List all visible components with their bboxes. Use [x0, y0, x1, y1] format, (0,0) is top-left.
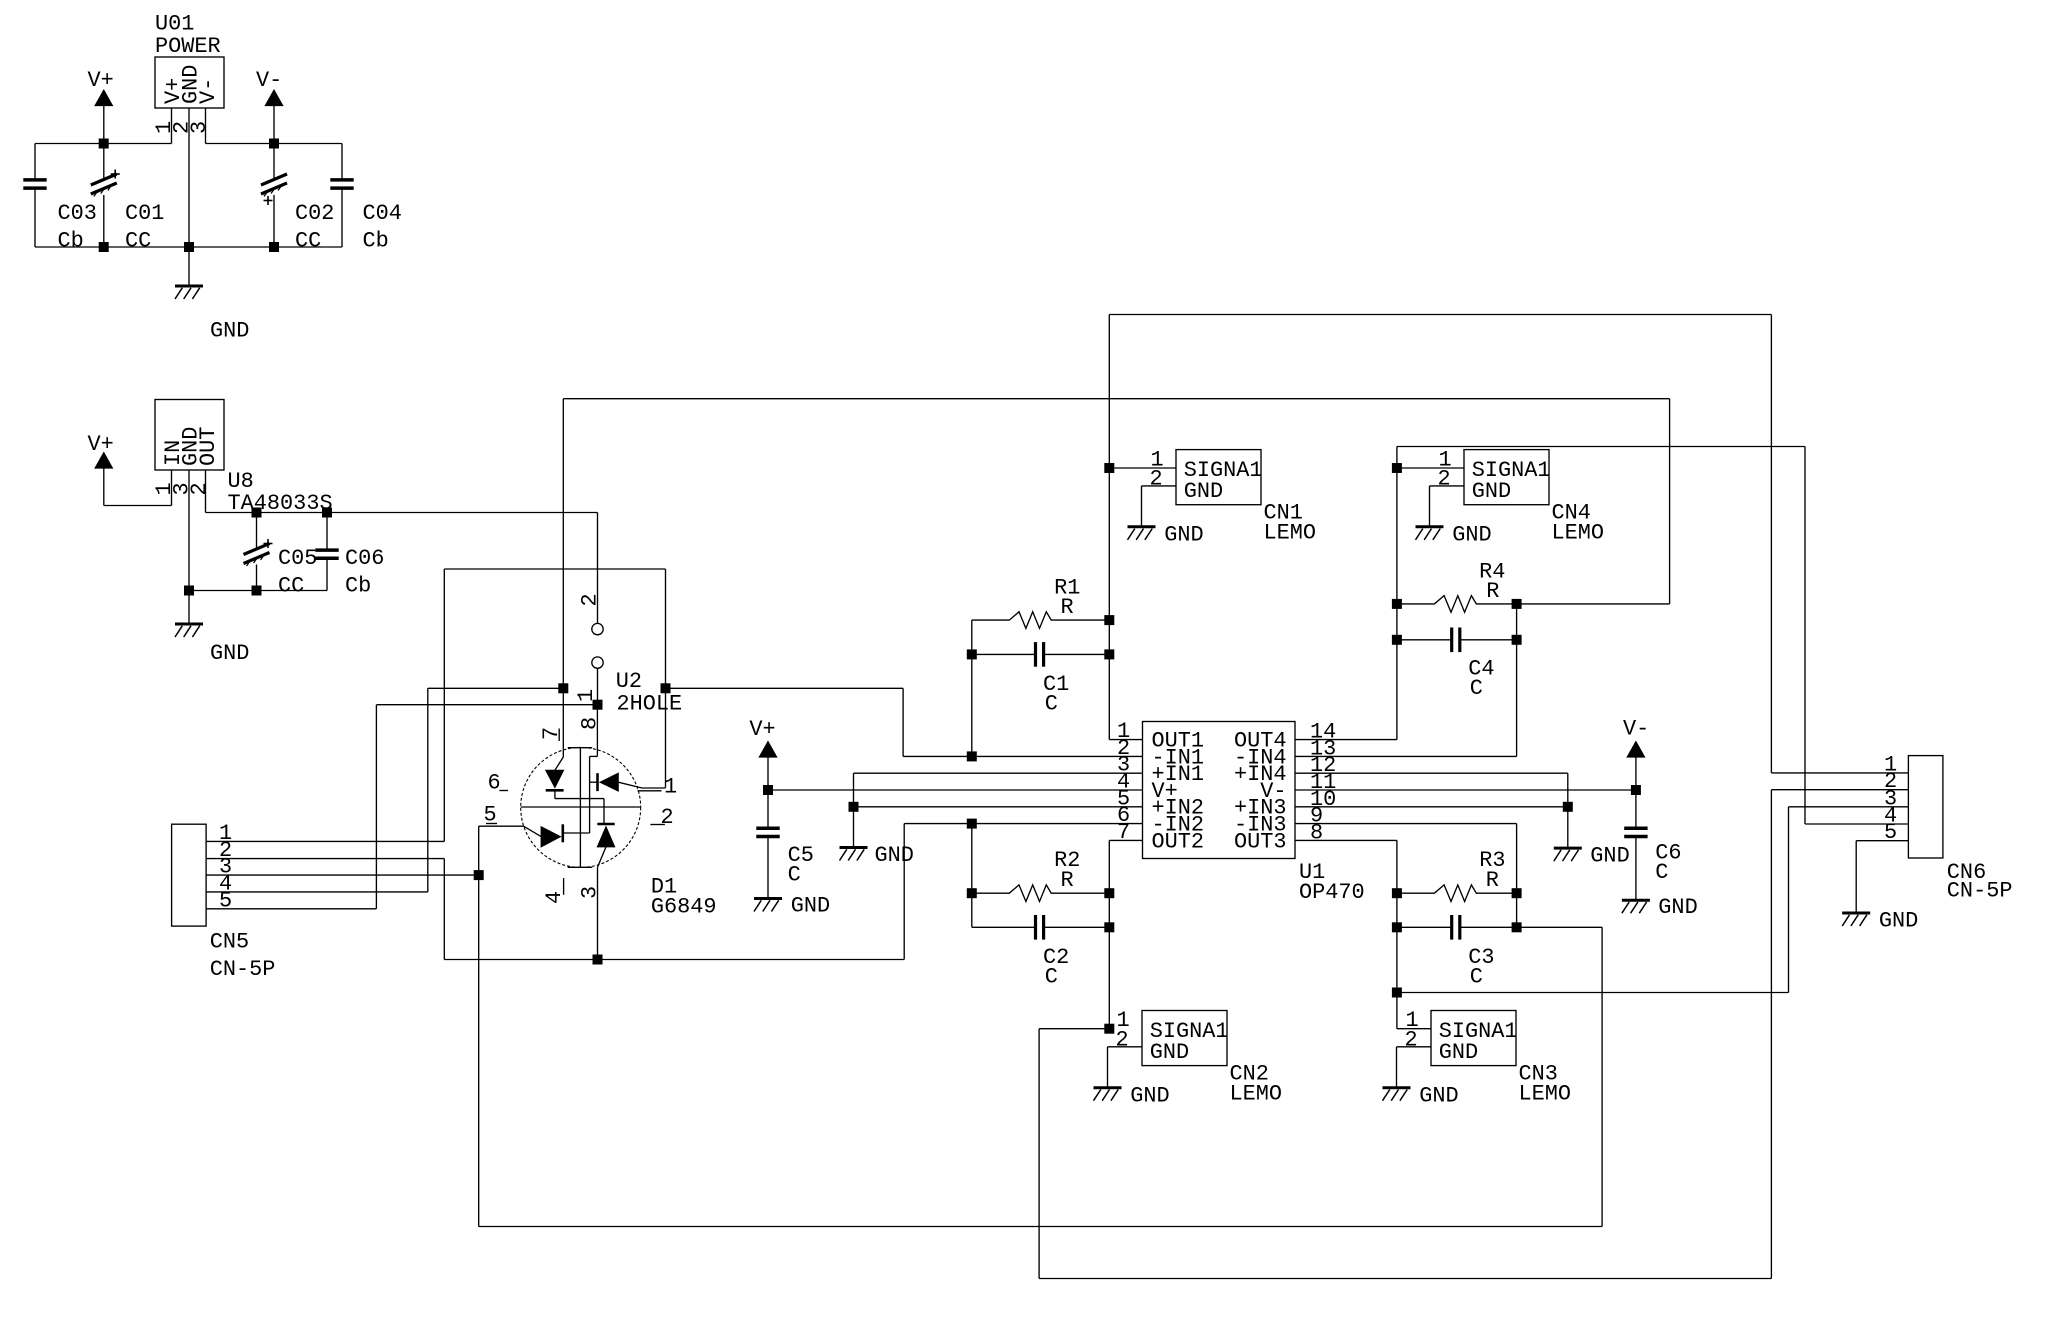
node CN5 pin3 junction — [474, 871, 483, 880]
svg-text:GND: GND — [1590, 844, 1629, 869]
CN3 pin number 1 — [1406, 1008, 1419, 1033]
U1 pin number 1 — [1117, 719, 1130, 744]
capacitor C03 — [23, 144, 46, 248]
U1 pin number 4 — [1117, 770, 1130, 795]
U01 pin name V+ (rotated) — [161, 78, 186, 104]
wire OUT3 drop — [1295, 840, 1397, 1028]
node D1 pin7 junction — [559, 684, 568, 693]
wire OUT2 drop — [1109, 840, 1142, 1028]
wire bottom rail — [35, 246, 342, 248]
ground below CN1 — [1128, 527, 1156, 540]
CN5 reference label — [210, 930, 276, 983]
CN1 pin name SIGNA1 — [1184, 458, 1263, 483]
node C05 gnd junction — [252, 586, 261, 595]
D1 pin3 wire — [598, 847, 607, 960]
U2 hole 1 circle — [592, 657, 603, 668]
svg-text:GND: GND — [1452, 523, 1491, 548]
svg-text:V-: V- — [1623, 717, 1649, 742]
net label GND (U01) — [210, 319, 249, 344]
power flag V+ arrow — [95, 90, 113, 144]
capacitor C5 — [756, 790, 779, 899]
U2 hole 2 circle — [592, 623, 603, 634]
resistor R2 — [972, 885, 1110, 902]
node R3 left junction — [1392, 889, 1401, 898]
ground below U01 — [175, 247, 203, 299]
connector CN2 body — [1142, 1011, 1227, 1066]
U8 pin number 2 — [187, 482, 212, 495]
ground below CN2 — [1094, 1088, 1122, 1101]
svg-text:Cb: Cb — [363, 228, 389, 253]
U1 left pin 1 name — [1152, 729, 1205, 754]
CN5 pin number 1 — [219, 821, 232, 846]
svg-text:C: C — [1470, 965, 1483, 990]
ground below CN3 — [1383, 1088, 1411, 1101]
net label GND (C5) — [791, 894, 830, 919]
CN6 pin number 5 — [1884, 820, 1897, 845]
U1 pin number 11 — [1310, 770, 1336, 795]
power flag V- label — [256, 68, 282, 93]
capacitor C06 — [315, 513, 338, 591]
wire OUT3 to CN6 — [1397, 807, 1909, 993]
node V- junction — [1631, 786, 1640, 795]
node R4 right junction — [1512, 599, 1521, 608]
D1 pin label 7 — [539, 727, 564, 741]
svg-text:CC: CC — [125, 228, 151, 253]
svg-text:GND: GND — [1472, 479, 1511, 504]
svg-text:R: R — [1061, 595, 1074, 620]
CN1 pin name GND — [1184, 479, 1223, 504]
CN4 pin name GND — [1472, 479, 1511, 504]
wire V+ to U1 pin4 — [768, 789, 1143, 791]
U1 right pin 9 name — [1234, 813, 1287, 838]
wire CN5 pin3 down to bottom run — [479, 875, 1602, 1226]
U2 hole 1 stub — [597, 668, 599, 704]
D1 pin8 wire — [590, 705, 598, 833]
CN2 reference label — [1230, 1062, 1283, 1107]
CN4 pin name SIGNA1 — [1472, 458, 1551, 483]
connector CN1 body — [1176, 450, 1261, 505]
U01 pin 3 stub — [205, 108, 207, 144]
D1 diode lower-right — [597, 824, 614, 847]
U1 pin number 7 — [1117, 820, 1130, 845]
capacitor C1 — [972, 642, 1110, 667]
node V- rail junction — [270, 139, 279, 148]
wire +IN1 to gnd — [854, 773, 1143, 847]
resistor R1 label — [1054, 576, 1080, 621]
CN1 reference label — [1264, 501, 1317, 546]
CN4 pin number 2 — [1438, 466, 1451, 491]
U1 right pin 14 name — [1234, 729, 1287, 754]
node R3 right junction — [1512, 889, 1521, 898]
svg-text:GND: GND — [1439, 1040, 1478, 1065]
CN2 pin name GND — [1150, 1040, 1189, 1065]
U1 left pin 3 name — [1152, 762, 1205, 787]
U1 right pin 8 name — [1234, 829, 1287, 854]
wire CN1 pin1 lead — [1109, 467, 1176, 469]
CN4 pin number 1 — [1439, 447, 1452, 472]
svg-text:C01: C01 — [125, 201, 164, 226]
capacitor C02 (polarized) — [261, 144, 287, 248]
svg-text:GND: GND — [1130, 1083, 1169, 1108]
svg-text:C04: C04 — [363, 201, 402, 226]
wire -IN1 to U1 pin2 — [666, 688, 1143, 756]
wire CN6 pin5 to ground — [1856, 841, 1908, 913]
U2 reference label — [616, 669, 682, 717]
net label GND (CN1) — [1164, 523, 1203, 548]
svg-text:V-: V- — [256, 68, 282, 93]
wire -IN1 drop — [665, 569, 667, 788]
svg-text:3: 3 — [577, 886, 602, 899]
U01 pin number 3 — [187, 121, 212, 134]
U1 right pin 13 name — [1234, 745, 1287, 770]
svg-text:POWER: POWER — [155, 34, 221, 59]
capacitor C6 — [1624, 790, 1647, 900]
ground below C5 — [754, 899, 782, 912]
net label GND (CN4) — [1452, 523, 1491, 548]
U1 pin number 8 — [1310, 820, 1323, 845]
wire R1 C1 left vertical — [971, 620, 973, 756]
svg-text:OUT3: OUT3 — [1234, 829, 1287, 854]
node C3 left junction — [1392, 923, 1401, 932]
capacitor C05 (polarized) — [244, 513, 273, 591]
power flag V- label (C6) — [1623, 717, 1649, 742]
ground +IN1 +IN2 — [840, 848, 868, 861]
svg-text:CN-5P: CN-5P — [1947, 878, 2013, 903]
svg-text:2: 2 — [1150, 466, 1163, 491]
svg-text:R: R — [1486, 579, 1499, 604]
CN1 pin number 1 — [1151, 447, 1164, 472]
wire -IN3 pin9 — [1295, 824, 1517, 928]
node R1 C1 left junction on -IN1 — [967, 752, 976, 761]
ground below CN6 pin5 — [1842, 913, 1870, 926]
CN3 reference label — [1519, 1062, 1572, 1107]
node CN4 pin1 junction — [1392, 464, 1401, 473]
net label GND (CN6) — [1879, 909, 1918, 934]
resistor R1 — [972, 612, 1110, 629]
net label GND (CN2) — [1130, 1083, 1169, 1108]
svg-text:GND: GND — [210, 641, 249, 666]
svg-text:LEMO: LEMO — [1519, 1082, 1572, 1107]
CN2 pin number 1 — [1117, 1008, 1130, 1033]
U1 pin number 12 — [1310, 753, 1336, 778]
svg-text:7: 7 — [539, 727, 564, 740]
svg-text:C: C — [1655, 860, 1668, 885]
svg-text:U2: U2 — [616, 669, 642, 694]
node C4 right junction — [1512, 635, 1521, 644]
U1 pin number 6 — [1117, 803, 1130, 828]
wire V- pin11 — [1295, 789, 1636, 791]
U2 pin number 2 (rotated) — [578, 593, 603, 606]
D1 pin1 wire — [618, 782, 665, 788]
svg-text:LEMO: LEMO — [1264, 521, 1317, 546]
U1 left pin 5 name — [1152, 796, 1205, 821]
capacitor C5 label — [788, 843, 814, 888]
node D1 pin3 rail junction — [593, 955, 602, 964]
node bottom rail junction C02 — [270, 243, 279, 252]
svg-text:GND: GND — [210, 319, 249, 344]
svg-text:C02: C02 — [295, 201, 334, 226]
resistor R3 — [1397, 885, 1517, 902]
U1 pin number 2 — [1117, 736, 1130, 761]
node U2 hole1 junction — [593, 700, 602, 709]
svg-text:2: 2 — [187, 482, 212, 495]
wire top rail right — [206, 143, 343, 145]
resistor R2 label — [1054, 848, 1080, 893]
svg-text:CC: CC — [278, 574, 304, 599]
U1 right pin 12 name — [1234, 762, 1287, 787]
svg-text:GND: GND — [1150, 1040, 1189, 1065]
capacitor C2 — [972, 915, 1110, 940]
wire V+ to U8 pin 1 — [104, 470, 172, 506]
svg-text:OUT: OUT — [196, 427, 221, 466]
svg-text:2: 2 — [1405, 1027, 1418, 1052]
U8 reference label — [228, 469, 333, 516]
svg-text:OUT2: OUT2 — [1152, 829, 1205, 854]
connector CN5 body — [172, 824, 207, 926]
U8 pin number 3 — [170, 482, 195, 495]
capacitor C2 label — [1043, 945, 1069, 990]
D1 horizontal chord — [521, 806, 641, 808]
node C1 left junction — [967, 650, 976, 659]
U1 pin number 9 — [1310, 804, 1323, 829]
svg-text:C05: C05 — [278, 546, 317, 571]
svg-text:C: C — [1045, 965, 1058, 990]
CN5 pin number 3 — [219, 855, 232, 880]
net label GND (CN3) — [1419, 1083, 1458, 1108]
U1 right pin 11 name — [1260, 779, 1286, 804]
CN5 pin number 2 — [219, 838, 232, 863]
wire gnd rail C05 C06 — [189, 590, 327, 592]
CN3 pin name SIGNA1 — [1439, 1019, 1518, 1044]
U01 pin name GND (rotated) — [179, 65, 204, 104]
node R1 right junction — [1105, 616, 1114, 625]
power flag V- arrow — [265, 90, 283, 144]
ground +IN3 +IN4 — [1554, 848, 1582, 861]
U01 pin number 1 — [152, 121, 177, 134]
node C4 left junction — [1392, 635, 1401, 644]
wire +IN3 pin10 — [1295, 806, 1568, 808]
power flag V- arrow (C6) — [1627, 742, 1645, 791]
op-amp U1 body — [1143, 722, 1296, 859]
CN6 pin number 1 — [1884, 752, 1897, 777]
D1 diode upper-left — [546, 770, 604, 824]
D1 pin label 8 — [577, 717, 602, 730]
power flag V+ arrow (C5) — [759, 742, 777, 791]
node C06 junction — [323, 508, 332, 517]
connector CN4 body — [1464, 450, 1549, 505]
CN3 pin name GND — [1439, 1040, 1478, 1065]
D1 pin label 2 — [650, 805, 673, 830]
D1 pin label 6 — [488, 771, 509, 796]
node R2 left junction — [967, 889, 976, 898]
svg-text:5: 5 — [1884, 820, 1897, 845]
U8 pin name OUT (rotated) — [196, 427, 221, 466]
capacitor C06 label — [345, 546, 384, 599]
ground below C6 — [1622, 900, 1650, 913]
svg-text:C: C — [1470, 676, 1483, 701]
wire top rail left — [35, 143, 172, 145]
wire CN5 pin5 to U2 hole1 — [206, 705, 597, 909]
CN6 pin number 3 — [1884, 786, 1897, 811]
svg-text:2HOLE: 2HOLE — [617, 692, 683, 717]
node OUT3 junction — [1392, 988, 1401, 997]
CN5 pin number 4 — [219, 871, 232, 896]
svg-text:GND: GND — [1164, 523, 1203, 548]
svg-text:U01: U01 — [155, 12, 194, 37]
D1 diode upper-right — [590, 773, 619, 791]
D1 pin label 1 — [638, 775, 678, 800]
D1 center chord vertical — [579, 748, 581, 868]
net label GND (U8) — [210, 641, 249, 666]
svg-text:2: 2 — [1438, 466, 1451, 491]
capacitor C1 label — [1043, 672, 1069, 717]
D1 pin label 4 — [542, 878, 567, 904]
wire OUT2 bottom loop — [1039, 790, 1908, 1279]
CN1 pin 2 wire to ground — [1142, 486, 1177, 527]
D1 top tick — [568, 747, 593, 749]
D1 pin label 3 — [577, 886, 602, 899]
CN4 pin 2 wire to ground — [1430, 486, 1465, 527]
svg-text:GND: GND — [1419, 1083, 1458, 1108]
resistor R3 label — [1479, 848, 1505, 893]
svg-text:1: 1 — [664, 775, 677, 800]
node bottom rail junction GND — [185, 243, 194, 252]
capacitor C6 label — [1655, 841, 1681, 886]
node R4 left junction — [1392, 599, 1401, 608]
svg-text:R: R — [1061, 868, 1074, 893]
wire CN3 pin1 lead — [1397, 1028, 1431, 1030]
regulator U01 reference label — [155, 12, 221, 60]
U8 pin 3 wire to ground — [188, 470, 190, 591]
wire OUT1 riser — [1109, 315, 1908, 773]
regulator U01 body — [155, 57, 224, 108]
node bottom rail junction C01 — [99, 243, 108, 252]
U8 pin 2 OUT wire — [206, 470, 598, 513]
capacitor C03 label — [58, 201, 97, 254]
svg-text:C03: C03 — [58, 201, 97, 226]
wire rail up to -IN2 — [904, 824, 1142, 960]
svg-text:Cb: Cb — [345, 574, 371, 599]
svg-text:V+: V+ — [88, 432, 114, 457]
wire junction up to D1 pin5 — [479, 826, 524, 875]
capacitor C04 label — [363, 201, 402, 254]
capacitor C01 label — [125, 201, 164, 254]
svg-text:GND: GND — [1658, 895, 1697, 920]
connector CN3 body — [1431, 1011, 1516, 1066]
connector CN6 body — [1908, 756, 1943, 858]
U8 pin number 1 — [152, 482, 177, 495]
D1 bottom tick — [568, 866, 593, 868]
ground below CN4 — [1416, 527, 1444, 540]
svg-text:8: 8 — [577, 717, 602, 730]
svg-text:V+: V+ — [88, 68, 114, 93]
node R2 right junction — [1105, 889, 1114, 898]
CN5 pin number 5 — [219, 888, 232, 913]
node V+ junction — [764, 786, 773, 795]
node C1 right junction — [1105, 650, 1114, 659]
svg-text:3: 3 — [187, 121, 212, 134]
D1 reference label — [651, 875, 717, 920]
U8 pin name IN (rotated) — [161, 440, 186, 466]
capacitor C3 label — [1468, 945, 1494, 990]
node CN1 pin1 junction — [1105, 464, 1114, 473]
U01 pin name V- (rotated) — [196, 78, 221, 104]
svg-text:V+: V+ — [749, 717, 775, 742]
CN2 pin name SIGNA1 — [1150, 1019, 1229, 1044]
CN6 pin number 4 — [1884, 804, 1897, 829]
svg-text:7: 7 — [1117, 820, 1130, 845]
wire -IN4 feed top run — [563, 399, 1669, 689]
wire CN5 pin1 to -IN1 riser — [206, 569, 665, 841]
U1 left pin 6 name — [1152, 813, 1205, 838]
U1 pin number 13 — [1310, 736, 1336, 761]
svg-text:2: 2 — [578, 593, 603, 606]
CN2 pin number 2 — [1116, 1027, 1129, 1052]
node R2 C2 left junction on -IN2 — [967, 819, 976, 828]
wire -IN4 pin13 — [1295, 604, 1517, 757]
svg-text:CN5: CN5 — [210, 930, 249, 955]
node C2 right junction — [1105, 923, 1114, 932]
U1 pin number 5 — [1117, 786, 1130, 811]
node CN2 pin1 junction — [1105, 1024, 1114, 1033]
svg-text:LEMO: LEMO — [1230, 1082, 1283, 1107]
capacitor C4 — [1397, 628, 1517, 653]
svg-text:2: 2 — [1116, 1027, 1129, 1052]
resistor R4 label — [1479, 560, 1505, 605]
net label GND (C6) — [1658, 895, 1697, 920]
wire +IN2 to U1 pin5 — [854, 806, 1143, 808]
svg-text:GND: GND — [875, 843, 914, 868]
svg-text:GND: GND — [791, 894, 830, 919]
U2 pin number 1 (rotated) — [574, 689, 599, 702]
CN4 reference label — [1552, 501, 1605, 546]
node C05 junction — [252, 508, 261, 517]
power flag V+ label (U8) — [88, 432, 114, 457]
D1 circle — [521, 747, 641, 867]
svg-text:GND: GND — [1879, 909, 1918, 934]
CN6 pin number 2 — [1884, 769, 1897, 794]
wire CN5 pin2 to bottom rail — [206, 859, 904, 960]
capacitor C01 (polarized) — [91, 144, 120, 248]
node V+ rail junction — [99, 139, 108, 148]
svg-text:C: C — [788, 863, 801, 888]
U1 pin number 10 — [1310, 787, 1336, 812]
U1 left pin 7 name — [1152, 829, 1205, 854]
node C3 right junction — [1512, 923, 1521, 932]
wire CN5 pin4 to D1 pin7 riser — [206, 688, 563, 892]
wire +IN4 pin12 — [1295, 773, 1568, 848]
power flag V+ label (C5) — [749, 717, 775, 742]
ground below U8 — [175, 591, 203, 638]
U1 reference label — [1299, 860, 1365, 905]
resistor R4 — [1397, 596, 1517, 613]
U1 pin number 3 — [1117, 753, 1130, 778]
D1 pin label 5 — [484, 803, 498, 828]
CN2 pin 2 wire to ground — [1108, 1047, 1143, 1088]
svg-text:R: R — [1486, 868, 1499, 893]
CN3 pin 2 wire to ground — [1397, 1047, 1432, 1088]
U01 pin number 2 — [170, 121, 195, 134]
capacitor C05 label — [278, 546, 317, 599]
svg-text:GND: GND — [1184, 479, 1223, 504]
power flag V+ arrow (U8) — [95, 453, 113, 506]
U1 left pin 4 name — [1152, 779, 1178, 804]
power flag V+ label — [88, 68, 114, 93]
svg-text:C: C — [1045, 692, 1058, 717]
U1 left pin 2 name — [1152, 745, 1205, 770]
svg-text:C06: C06 — [345, 546, 384, 571]
capacitor C02 label — [295, 201, 334, 254]
